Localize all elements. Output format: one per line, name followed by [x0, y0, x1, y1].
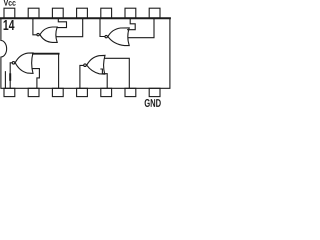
label 14 — [4, 20, 15, 30]
thick blob segment on pin 1 wire — [9, 73, 11, 81]
pin 8 (top) — [149, 8, 160, 18]
label GND — [145, 99, 161, 107]
pin 10 (top) — [101, 8, 112, 18]
pin 14 (top) — [4, 8, 15, 18]
NOR gate G2 output bubble — [105, 35, 107, 37]
wire pin8 to G2 input B — [128, 18, 154, 38]
IC top edge (thick) — [1, 17, 170, 19]
wire pin6 to G4 input A — [105, 58, 129, 88]
NOR gate G4 body (bottom-right, output to pin 4) — [87, 55, 105, 74]
wire pin3 to G3 input A (thick band) — [33, 53, 59, 55]
NOR gate G3 output bubble — [12, 62, 15, 65]
stray vertical line near pin 1 — [4, 72, 6, 88]
wire G3 output to pin 1 — [10, 63, 12, 88]
pin 7 GND (bottom) — [149, 88, 160, 96]
wire pin10 to G2 output — [100, 18, 105, 37]
wire G4 output to pin 4 — [80, 65, 84, 88]
pin 3 (bottom) — [52, 88, 63, 96]
wire pin2 to G3 input B (staircase) — [33, 69, 40, 88]
pin 1 (bottom) — [4, 88, 15, 96]
pin 6 (bottom) — [125, 88, 136, 96]
IC package body outline with orientation notch — [1, 19, 170, 89]
label Vcc — [4, 0, 16, 6]
wire pin12 to G1 input A — [57, 18, 67, 28]
NOR gate G2 body (top-right, output to pin 10) — [108, 28, 129, 46]
pin 5 (bottom) — [101, 88, 112, 96]
NOR gate G1 output bubble — [37, 33, 39, 35]
NOR gate G1 body (top-left, output to pin 13) — [40, 27, 57, 42]
wire pin9 to G2 input A — [128, 18, 136, 30]
pin 12 (top) — [52, 8, 63, 18]
wire pin3 vertical — [58, 54, 60, 88]
pin 9 (top) — [125, 8, 136, 18]
wire pin11 to G1 input B — [56, 18, 82, 37]
NOR gate G3 body (bottom-left, output to pin 1) — [15, 53, 33, 74]
NOR gate G4 output bubble — [84, 64, 87, 67]
pin 11 (top) — [77, 8, 88, 18]
pin 4 (bottom) — [77, 88, 88, 96]
pin 2 (bottom) — [28, 88, 39, 96]
wire pin13 to G1 output — [33, 18, 37, 35]
wire pin5 to G4 input B (staircase) — [101, 69, 107, 88]
pin 13 (top) — [28, 8, 39, 18]
